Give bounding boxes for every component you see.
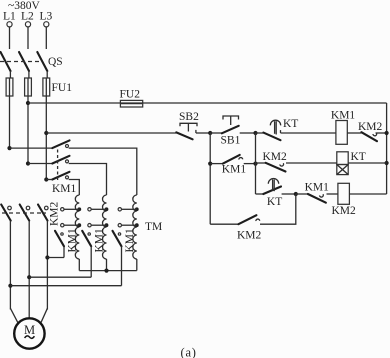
contact KM2 NO bottom blade	[238, 215, 256, 224]
wire bottom branch right	[260, 194, 296, 224]
wire control rail to SB2	[46, 132, 176, 134]
terminal L2	[25, 22, 30, 27]
contact KM1 row3 blade	[52, 172, 69, 180]
wire SB2 to SB1	[196, 132, 210, 134]
contact KM1 NC blade	[308, 194, 326, 203]
svg-text:KM1: KM1	[52, 183, 77, 195]
wire row2 to KT coil	[286, 162, 337, 164]
svg-text:KM1: KM1	[305, 182, 330, 194]
wire coil3 pivot down	[121, 246, 123, 285]
wire right rail	[386, 103, 388, 194]
node SB1 left	[208, 131, 212, 135]
label KM2 bottom	[237, 229, 262, 241]
terminal L3	[44, 22, 49, 27]
wire row1 to KT contact	[256, 132, 264, 134]
wire row1 to KM1 coil	[281, 132, 336, 134]
label FU2	[120, 89, 141, 101]
wire KM1 coil to KM2 NC	[347, 132, 361, 134]
coil KT x-box	[337, 165, 348, 175]
terminal L1	[7, 22, 12, 27]
wire L2 drop to QS	[27, 27, 29, 49]
wire SB1 right stub	[240, 132, 256, 134]
fuse FU1 pole 2	[25, 78, 32, 96]
wire coil3 route	[10, 285, 121, 287]
contactor KM2 pole1 blade	[1, 205, 11, 221]
wire QS to FU1 pole 3	[45, 71, 48, 96]
wire KM1 NC to KM2 coil	[327, 193, 338, 195]
svg-text:KM1: KM1	[124, 228, 136, 253]
label KM1 coil	[331, 109, 356, 121]
node latch left	[208, 162, 212, 166]
label KT row1	[283, 118, 298, 130]
node control tap on L3	[44, 131, 48, 135]
contactor KM2 pole2 fixed circle	[26, 206, 30, 210]
contact KM2 NC row1 blade	[361, 132, 377, 141]
wire coil1 route	[47, 257, 64, 259]
wire row3 left stub	[256, 193, 264, 195]
contact KM1 row2 blade	[52, 156, 69, 164]
label KM2 coil	[332, 205, 357, 217]
TM coil1 selector circle	[61, 233, 63, 235]
label KM1 coil3 vertical	[124, 228, 136, 253]
wire L3 below KM2	[46, 221, 48, 310]
switch QS pole 2 blade	[19, 52, 29, 71]
svg-text:KT: KT	[283, 118, 298, 130]
contact KM2 NC row2 hook	[280, 163, 284, 166]
label KM1 coil1 vertical	[67, 228, 79, 253]
contact KM1 row1 fixed circle	[66, 145, 69, 148]
svg-text:KM2: KM2	[48, 201, 60, 226]
svg-text:TM: TM	[145, 221, 162, 233]
wire TM star bus	[79, 259, 137, 271]
label KM1 coil2 vertical	[94, 228, 106, 253]
wire TM row1 to coil3	[69, 148, 137, 195]
TM coil3 tap node upper	[135, 207, 139, 211]
node TM row2 tap on L2	[26, 161, 30, 165]
QS linkage dashed line	[0, 61, 42, 63]
svg-text:KM1: KM1	[331, 109, 356, 121]
svg-text:KT: KT	[351, 151, 366, 163]
wire row3 to KM1 NC	[296, 193, 308, 195]
wire coil2 pivot down	[90, 246, 92, 277]
TM coil2 tap node upper	[105, 207, 109, 211]
wire motor lead left diagonal	[10, 308, 17, 322]
wire TM row1	[10, 147, 53, 149]
label L1	[3, 11, 16, 23]
wire L2 below FU1	[27, 96, 29, 164]
fuse FU1 pole 3	[43, 78, 50, 96]
contact KT NC delayed blade	[263, 133, 280, 141]
label motor tilde	[25, 336, 35, 339]
autotransformer TM coil 2	[103, 195, 107, 259]
label KM2 main contacts vertical	[48, 201, 60, 226]
contact KT row1 right stub	[280, 130, 282, 133]
contactor KM2 pole3 fixed circle	[45, 206, 49, 210]
wire TM row3 to coil1	[69, 180, 80, 196]
node motor tap L3	[45, 255, 49, 259]
wire motor lead right diagonal	[41, 308, 47, 322]
motor M circle	[14, 318, 44, 348]
button SB2 NC blade	[176, 132, 192, 139]
label L3	[40, 11, 53, 23]
wire latch branch left vertical	[209, 133, 211, 224]
svg-text:SB1: SB1	[221, 135, 241, 147]
KM2 linkage dashed line	[2, 212, 46, 214]
coil KT	[337, 152, 348, 165]
autotransformer TM coil 3	[133, 195, 137, 259]
coil KM1	[336, 121, 347, 145]
label SB2	[179, 111, 199, 123]
contact KM1 aux blade	[223, 155, 240, 164]
label KM2 row2	[263, 151, 288, 163]
switch QS pole 3 blade	[37, 52, 47, 71]
label FU1	[52, 82, 73, 94]
TM coil1 tap node lower	[77, 223, 81, 227]
node TM row1 tap on L1	[7, 146, 11, 150]
node rail row1	[385, 131, 389, 135]
label QS	[48, 56, 63, 68]
contact KM1 coil1 blade	[55, 231, 64, 247]
wire coil2 route	[29, 276, 91, 278]
wire KM1 aux right stub	[244, 163, 256, 165]
svg-text:(a): (a)	[181, 346, 197, 358]
KM1 linkage dashed line	[57, 150, 59, 181]
svg-text:SB2: SB2	[179, 111, 199, 123]
label M	[24, 323, 35, 337]
svg-text:M: M	[24, 323, 35, 337]
button SB2 actuator	[180, 123, 197, 131]
KT delay umbrella row3	[268, 179, 278, 192]
label KM1 aux	[222, 163, 247, 175]
TM coil3 selector circle	[118, 233, 120, 235]
wire L3 drop to QS	[45, 27, 47, 49]
svg-text:KT: KT	[267, 196, 282, 208]
wire L2 below KM2	[28, 221, 30, 319]
wire coil1 pivot down	[63, 246, 65, 257]
svg-text:FU1: FU1	[52, 82, 73, 94]
label ~380V	[8, 0, 40, 12]
wire TM row2 to coil2	[69, 164, 107, 196]
label KM1 NC	[305, 182, 330, 194]
wire KT row3 right stub	[282, 193, 296, 195]
contactor KM2 pole1 fixed circle	[8, 206, 12, 210]
node SB1 right	[253, 131, 257, 135]
contact KM2 NO bottom hook	[256, 219, 260, 221]
wire QS to FU1 pole 2	[27, 71, 30, 96]
autotransformer TM coil 1	[75, 195, 79, 259]
TM coil2 tap stub upper	[88, 208, 107, 211]
contact KM2 NC row2 blade	[266, 163, 286, 172]
svg-text:L3: L3	[40, 11, 53, 23]
contact KM1 coil3 blade	[113, 231, 122, 247]
wire KM2 NC row1 to rail	[376, 132, 387, 134]
wire FU2 feeder rail	[28, 102, 387, 104]
coil KM2	[338, 183, 350, 204]
svg-text:KM2: KM2	[358, 121, 383, 133]
label TM	[145, 221, 162, 233]
contact KM1 row1 blade	[52, 140, 69, 148]
label KT row3	[267, 196, 282, 208]
contact KM1 coil2 blade	[82, 231, 91, 247]
contact KM1 NC hook	[320, 194, 324, 197]
label KM2 row1	[358, 121, 383, 133]
TM coil3 tap stub lower	[118, 224, 137, 227]
svg-text:KM2: KM2	[237, 229, 262, 241]
wire L1 below KM2	[9, 221, 11, 310]
node TM star bus	[104, 269, 108, 273]
node motor tap L1	[8, 284, 12, 288]
button SB1 NO blade	[222, 126, 239, 134]
wire bottom branch left	[210, 223, 238, 225]
node TM row3 tap on L3	[44, 177, 48, 181]
wire TM row3 stub	[46, 179, 52, 181]
svg-text:KM2: KM2	[263, 151, 288, 163]
svg-text:KM1: KM1	[67, 228, 79, 253]
wire KM1 aux left stub	[210, 163, 223, 165]
node rail row2	[385, 161, 389, 165]
TM coil2 tap stub lower	[88, 224, 107, 227]
contact KM1 row2 fixed circle	[66, 160, 69, 163]
node KM1 aux right	[253, 162, 257, 166]
wire KT coil to rail	[348, 162, 386, 164]
svg-text:QS: QS	[48, 56, 63, 68]
contact KT NO delayed blade	[263, 187, 281, 195]
wire branch vertical x255	[255, 133, 257, 194]
TM coil3 tap stub upper	[118, 208, 137, 211]
TM coil2 tap node lower	[105, 223, 109, 227]
wire KM2 coil to rail	[349, 193, 386, 195]
fuse FU1 pole 1	[6, 78, 13, 96]
wire TM row2	[28, 163, 52, 165]
node row3 junction	[294, 192, 298, 196]
wire QS to FU1 pole 1	[9, 71, 12, 96]
TM coil3 tap node lower	[135, 223, 139, 227]
contactor KM2 pole3 blade	[38, 205, 48, 221]
contact KM2 NC row1 hook	[373, 133, 377, 136]
node control tap on L2	[26, 101, 30, 105]
contact KM1 row3 fixed circle	[66, 176, 69, 179]
TM coil1 tap stub lower	[61, 224, 80, 227]
TM coil1 tap node upper	[77, 207, 81, 211]
svg-text:L1: L1	[3, 11, 16, 23]
label L2	[21, 11, 34, 23]
switch QS pole 1 blade	[1, 52, 11, 71]
label (a)	[181, 346, 197, 358]
wire SB1 left stub	[210, 132, 222, 134]
KT delay umbrella row1	[270, 120, 280, 134]
label KM1 main contacts	[52, 183, 77, 195]
label SB1	[221, 135, 241, 147]
node motor tap L2	[27, 275, 31, 279]
button SB1 actuator	[223, 116, 239, 125]
wire L3 below FU1	[45, 96, 47, 180]
wire row2 left stub	[256, 162, 266, 164]
wire L1 below FU1	[9, 96, 11, 148]
button SB2 right stub	[195, 130, 197, 133]
label KT coil	[351, 151, 366, 163]
svg-text:L2: L2	[21, 11, 34, 23]
svg-text:FU2: FU2	[120, 89, 141, 101]
svg-text:KM1: KM1	[94, 228, 106, 253]
contact KM1 aux hook	[239, 158, 243, 160]
contactor KM2 pole2 blade	[20, 205, 30, 221]
wire L1 drop to QS	[9, 27, 11, 49]
fuse FU2	[120, 100, 142, 107]
TM coil1 tap stub upper	[61, 208, 80, 211]
TM coil2 selector circle	[88, 233, 90, 235]
svg-text:KM1: KM1	[222, 163, 247, 175]
svg-text:KM2: KM2	[332, 205, 357, 217]
